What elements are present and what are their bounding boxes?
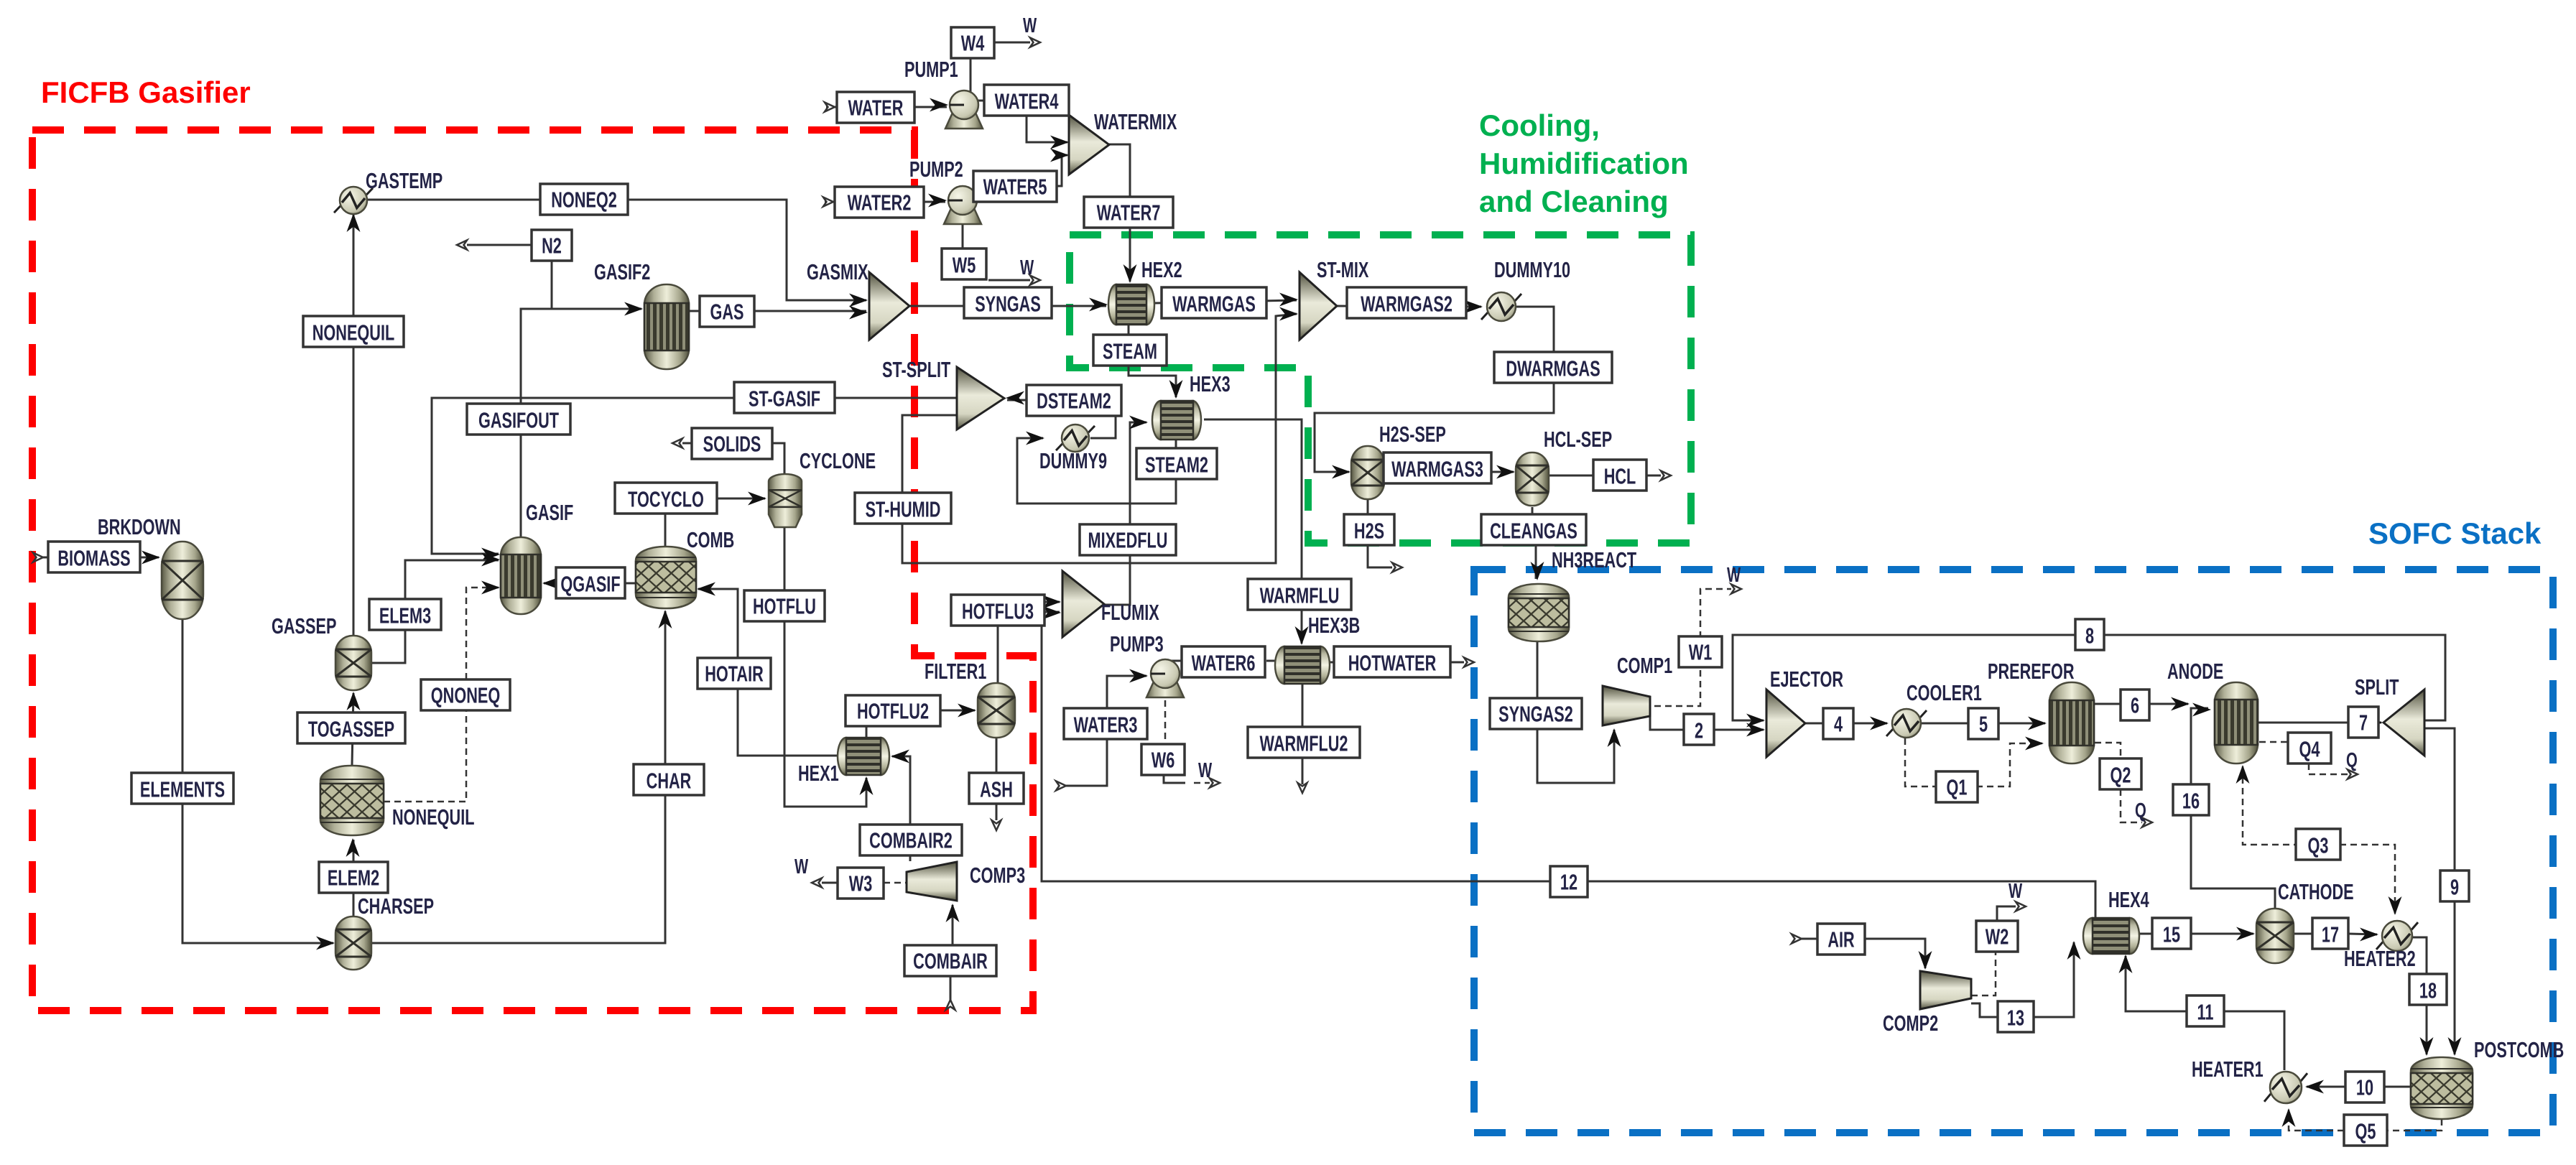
stream label WARMFLU2 — [1248, 727, 1360, 758]
cooler COOLER1 — [1886, 680, 1982, 738]
wire W4 to PUMP1 — [970, 55, 972, 92]
reactor COMB — [636, 527, 734, 608]
reactor NONEQUIL — [320, 766, 475, 835]
title Cooling Humidification and Cleaning — [1479, 108, 1689, 218]
svg-text:PREREFOR: PREREFOR — [1988, 659, 2075, 684]
svg-text:CATHODE: CATHODE — [2278, 879, 2354, 904]
reactor ANODE — [2167, 659, 2258, 763]
wire STEAM HEX2 to HEX3 — [1129, 325, 1183, 399]
stream label ST-HUMID — [855, 493, 951, 524]
svg-text:16: 16 — [2182, 789, 2200, 814]
stream label Q1 — [1936, 771, 1978, 802]
Cooling Humidification and Cleaning region border (green dashed) — [1070, 235, 1691, 543]
svg-text:GASTEMP: GASTEMP — [366, 168, 443, 193]
svg-text:HEX3B: HEX3B — [1308, 613, 1360, 638]
wire CHAR CHARSEP to COMB — [371, 610, 672, 943]
wire WARMFLU2 HEX3B export down — [1298, 684, 1307, 793]
stream label SYNGAS2 — [1490, 698, 1582, 729]
svg-text:WATER3: WATER3 — [1074, 713, 1138, 738]
svg-text:Q: Q — [2135, 799, 2146, 822]
svg-text:DUMMY9: DUMMY9 — [1039, 448, 1107, 473]
pump PUMP3 — [1110, 631, 1184, 697]
wire stream 17 CATHODE to HEATER2 — [2294, 928, 2378, 942]
stream label BIOMASS — [48, 542, 140, 572]
svg-text:STEAM2: STEAM2 — [1145, 452, 1208, 478]
svg-text:GASSEP: GASSEP — [272, 613, 336, 639]
svg-text:CHARSEP: CHARSEP — [358, 894, 434, 919]
wire N2 to GASIF2 — [552, 258, 641, 309]
svg-text:HOTFLU: HOTFLU — [753, 594, 816, 619]
stream label WATER6 — [1182, 646, 1265, 677]
svg-text:GAS: GAS — [710, 300, 743, 325]
stream label Q4 — [2288, 733, 2331, 763]
wire HEX3 out to WARMFLU HEX3B — [1204, 419, 1309, 645]
svg-text:W5: W5 — [953, 253, 976, 278]
svg-text:Q5: Q5 — [2355, 1119, 2376, 1144]
work/heat port label W — [1727, 564, 1741, 587]
wire stream 18 HEATER2 to POSTCOMB — [2410, 937, 2434, 1056]
wire W1 dashed COMP1 work — [1654, 585, 1741, 707]
stream label CHAR — [634, 764, 704, 795]
wire COMBAIR feed to COMP3 — [946, 904, 960, 1010]
wire Q1 dashed COOLER1 to PREREFOR — [1905, 737, 2044, 787]
stream label HOTFLU2 — [845, 695, 940, 726]
svg-text:WARMFLU2: WARMFLU2 — [1260, 731, 1348, 756]
svg-text:HEX4: HEX4 — [2108, 887, 2149, 912]
SOFC Stack region border (blue dashed) — [1474, 570, 2553, 1133]
stream label HOTFLU3 — [951, 595, 1044, 626]
work/heat port label Q — [2346, 749, 2358, 772]
svg-text:PUMP2: PUMP2 — [909, 157, 963, 182]
svg-text:18: 18 — [2419, 978, 2437, 1003]
wire PUMP2 to WATER5 — [976, 186, 981, 195]
stream label ELEM3 — [369, 599, 441, 630]
wire HOTFLU2 HEX1 to FILTER1 — [866, 704, 976, 738]
stream label TOGASSEP — [297, 713, 405, 743]
wire W2 dashed COMP2 work — [1971, 902, 2026, 996]
wire BIOMASS feed to BRKDOWN — [33, 551, 160, 565]
stream label ELEM2 — [319, 862, 388, 893]
wire stream 4 EJECTOR to COOLER1 — [1805, 717, 1889, 730]
svg-text:FLUMIX: FLUMIX — [1101, 600, 1159, 625]
stream label 8 — [2075, 619, 2104, 650]
stream label STEAM2 — [1136, 448, 1217, 479]
stream label 4 — [1823, 708, 1853, 739]
svg-text:HCL-SEP: HCL-SEP — [1544, 427, 1612, 452]
stream label W6 — [1141, 744, 1185, 775]
wire W6 work export W — [1164, 775, 1220, 788]
stream label WATER7 — [1084, 197, 1173, 228]
stream label W1 — [1679, 636, 1722, 667]
stream label NONEQUIL — [303, 316, 404, 347]
wire PUMP3 to WATER6 — [1169, 660, 1183, 662]
stream label 7 — [2348, 707, 2378, 738]
stream label N2 — [532, 230, 572, 261]
reactor PREREFOR — [1988, 659, 2094, 763]
heater HEATER2 — [2344, 921, 2418, 971]
wire MIXEDFLU FLUMIX to HEX3 — [1101, 416, 1148, 605]
svg-text:AIR: AIR — [1827, 927, 1854, 952]
wire H2S export — [1368, 499, 1402, 572]
svg-text:SYNGAS2: SYNGAS2 — [1498, 702, 1573, 727]
svg-text:PUMP3: PUMP3 — [1110, 631, 1164, 656]
stream label WATER2 — [835, 187, 924, 218]
separator CHARSEP — [335, 894, 434, 970]
svg-text:COMP2: COMP2 — [1883, 1011, 1938, 1036]
stream label WARMGAS2 — [1347, 287, 1466, 318]
reactor NH3REACT — [1509, 547, 1637, 641]
svg-text:Q: Q — [2346, 749, 2358, 772]
stream label DSTEAM2 — [1027, 385, 1121, 416]
stream label QNONEQ — [421, 679, 510, 710]
wire WATER4 to WATERMIX — [1027, 112, 1069, 149]
wire GASIFOUT GASIF to GASIF2 — [521, 302, 643, 539]
svg-text:HEX3: HEX3 — [1190, 371, 1231, 396]
svg-text:ASH: ASH — [980, 777, 1013, 802]
stream label 10 — [2345, 1072, 2384, 1103]
stream label W5 — [942, 249, 986, 279]
compressor COMP3 — [907, 862, 1025, 901]
wire NONEQUIL stream GASSEP to GASTEMP — [347, 213, 361, 636]
wire stream 8 SPLIT recycle to EJECTOR — [1733, 635, 2445, 728]
svg-text:NH3REACT: NH3REACT — [1552, 547, 1637, 572]
stream label WARMGAS — [1162, 287, 1266, 318]
wire stream 5 COOLER1 to PREREFOR — [1921, 717, 2047, 730]
svg-text:DUMMY10: DUMMY10 — [1494, 257, 1570, 282]
svg-text:BIOMASS: BIOMASS — [57, 546, 130, 571]
wire stream 12 HEX4 to FLUMIX — [1042, 595, 2095, 919]
wire DSTEAM2 to ST-SPLIT — [1006, 391, 1027, 405]
stream label 12 — [1550, 866, 1588, 897]
stream label 11 — [2187, 995, 2224, 1026]
title SOFC Stack — [2368, 516, 2542, 550]
heat exchanger HEX3 — [1152, 371, 1231, 440]
wire ELEM3 GASSEP to GASIF — [371, 553, 500, 664]
heat exchanger HEX1 — [798, 738, 889, 786]
wire HCL export — [1549, 471, 1671, 481]
wire WATERMIX to HEX2 via WATER7 — [1109, 144, 1137, 283]
compressor COMP2 — [1883, 971, 1971, 1036]
svg-text:QNONEQ: QNONEQ — [431, 683, 500, 708]
wire AIR feed to COMP2 — [1792, 934, 1932, 970]
svg-text:HOTFLU2: HOTFLU2 — [857, 699, 929, 724]
svg-text:GASIFOUT: GASIFOUT — [478, 408, 560, 433]
wire HOTAIR HEX1 to COMB — [697, 582, 838, 756]
svg-text:SOFC Stack: SOFC Stack — [2368, 516, 2542, 550]
stream label SYNGAS — [964, 287, 1052, 318]
stream label ST-GASIF — [734, 382, 835, 413]
svg-text:TOGASSEP: TOGASSEP — [308, 717, 394, 742]
wire WARMGAS3 H2S-SEP to HCL-SEP — [1384, 465, 1515, 479]
stream label WATER4 — [984, 85, 1069, 116]
wire TOCYCLO COMB to CYCLONE — [665, 492, 766, 548]
stream label NONEQ2 — [540, 184, 628, 215]
svg-text:4: 4 — [1834, 712, 1843, 737]
stream label W4 — [951, 27, 994, 58]
svg-text:W: W — [794, 855, 808, 878]
mixer ST-MIX — [1299, 257, 1368, 340]
stream label 2 — [1684, 714, 1714, 745]
wire PUMP3 to W6 — [1164, 700, 1167, 746]
svg-text:TOCYCLO: TOCYCLO — [628, 487, 704, 512]
wire stream 9 SPLIT to POSTCOMB — [2424, 728, 2462, 1056]
wire HOTFLU CYCLONE to HEX1 — [784, 527, 874, 807]
stream label AIR — [1817, 924, 1865, 955]
reactor CATHODE — [2256, 879, 2354, 963]
ejector EJECTOR — [1766, 667, 1843, 757]
reactor GASIF2 — [594, 259, 689, 369]
stream label Q3 — [2296, 829, 2340, 860]
svg-text:HOTFLU3: HOTFLU3 — [962, 599, 1034, 624]
wire COMBAIR2 COMP3 to HEX1 — [891, 750, 910, 862]
wire stream 7 ANODE to SPLIT — [2257, 716, 2383, 730]
stream label DWARMGAS — [1494, 352, 1612, 383]
wire CLEANGAS HCL-SEP to NH3REACT — [1531, 507, 1544, 580]
svg-text:Q2: Q2 — [2111, 763, 2131, 788]
svg-text:HEATER1: HEATER1 — [2192, 1057, 2264, 1082]
svg-text:SPLIT: SPLIT — [2355, 674, 2399, 700]
work/heat port label W — [1198, 759, 1212, 782]
stream label HCL — [1593, 460, 1646, 491]
svg-text:W: W — [1727, 564, 1741, 587]
stream label ASH — [969, 773, 1024, 804]
stream label HOTAIR — [698, 658, 771, 689]
svg-text:SYNGAS: SYNGAS — [975, 292, 1041, 317]
wire ASH FILTER1 export — [992, 738, 1001, 830]
svg-text:COOLER1: COOLER1 — [1906, 680, 1982, 705]
stream label 13 — [1998, 1001, 2034, 1032]
wire WATER5 to WATERMIX — [1050, 149, 1069, 187]
title FICFB Gasifier — [41, 75, 251, 109]
svg-text:WATER: WATER — [848, 96, 904, 121]
svg-text:GASMIX: GASMIX — [807, 259, 868, 284]
compressor COMP1 — [1603, 653, 1672, 725]
svg-text:HEATER2: HEATER2 — [2344, 946, 2416, 971]
heat exchanger HEX3B — [1275, 613, 1360, 684]
svg-text:NONEQUIL: NONEQUIL — [312, 320, 395, 345]
wire SYNGAS2 NH3REACT to COMP1 — [1537, 641, 1621, 783]
svg-text:HCL: HCL — [1604, 464, 1636, 489]
svg-text:WATER2: WATER2 — [848, 190, 912, 215]
svg-text:GASIF: GASIF — [526, 500, 573, 525]
heater DUMMY10 — [1481, 257, 1570, 321]
svg-text:NONEQUIL: NONEQUIL — [392, 804, 475, 830]
svg-text:Cooling,: Cooling, — [1479, 108, 1600, 142]
svg-text:WATER4: WATER4 — [995, 89, 1059, 114]
stream label GASIFOUT — [467, 404, 570, 435]
svg-text:ELEMENTS: ELEMENTS — [140, 777, 225, 802]
svg-text:W4: W4 — [961, 31, 985, 56]
work/heat port label W — [794, 855, 808, 878]
svg-text:HEX1: HEX1 — [798, 761, 839, 786]
svg-text:WARMFLU: WARMFLU — [1260, 583, 1340, 608]
stream label MIXEDFLU — [1080, 524, 1176, 555]
stream label QGASIF — [556, 567, 625, 598]
svg-text:W6: W6 — [1152, 748, 1175, 773]
svg-text:WARMGAS3: WARMGAS3 — [1391, 457, 1483, 482]
svg-text:DSTEAM2: DSTEAM2 — [1037, 389, 1111, 414]
svg-text:NONEQ2: NONEQ2 — [551, 187, 617, 213]
reactor BRKDOWN — [98, 514, 203, 619]
svg-text:W3: W3 — [849, 871, 873, 896]
svg-text:W: W — [1020, 256, 1034, 279]
wire Q4 dashed ANODE export — [2259, 742, 2358, 779]
svg-text:11: 11 — [2197, 1000, 2214, 1025]
wire Q3 dashed HEATER2 to ANODE — [2236, 765, 2402, 915]
svg-text:ST-GASIF: ST-GASIF — [749, 386, 820, 412]
wire stream 16 CATHODE to ANODE — [2191, 703, 2275, 910]
wire stream 11 HEATER1 to HEX4 — [2119, 955, 2285, 1070]
stream label GAS — [700, 296, 754, 327]
wire WARMGAS2 ST-MIX to DUMMY10 — [1337, 300, 1483, 314]
stream label HOTFLU — [744, 590, 825, 621]
stream label 18 — [2409, 974, 2447, 1005]
stream label 9 — [2440, 871, 2469, 901]
wire stream 12 start horizontal crossing — [0, 0, 1, 1]
separator HCL-SEP — [1516, 427, 1612, 506]
svg-text:6: 6 — [2131, 693, 2139, 718]
svg-text:COMBAIR: COMBAIR — [913, 949, 988, 974]
svg-text:CLEANGAS: CLEANGAS — [1490, 519, 1577, 544]
svg-text:13: 13 — [2007, 1006, 2024, 1031]
wire W3 work export — [812, 878, 907, 888]
stream label ELEMENTS — [131, 773, 233, 804]
pump PUMP2 — [909, 157, 981, 224]
svg-text:17: 17 — [2322, 922, 2339, 947]
stream label 5 — [1968, 708, 1998, 739]
heat exchanger HEX4 — [2083, 887, 2149, 954]
heater HEATER1 — [2192, 1057, 2307, 1103]
svg-text:W: W — [1023, 14, 1037, 37]
svg-text:WATER5: WATER5 — [983, 175, 1047, 200]
svg-text:GASIF2: GASIF2 — [594, 259, 650, 284]
wire ST-GASIF ST-SPLIT to GASIF — [432, 398, 957, 562]
wire W4 work export W — [994, 38, 1040, 47]
svg-text:W1: W1 — [1689, 640, 1713, 665]
stream label WATER5 — [973, 171, 1057, 202]
stream label STEAM — [1093, 335, 1167, 366]
svg-text:ANODE: ANODE — [2167, 659, 2223, 684]
wire NONEQ2 GASTEMP to GASMIX — [366, 200, 868, 307]
wire stream 10 POSTCOMB to HEATER1 — [2305, 1080, 2411, 1094]
stream label Q2 — [2100, 758, 2141, 789]
reactor POSTCOMB — [2411, 1037, 2564, 1119]
wire PUMP1 to WATER4 — [977, 100, 984, 102]
separator GASSEP — [272, 613, 371, 690]
wire ST-HUMID ST-SPLIT to ST-MIX — [902, 307, 1298, 564]
svg-text:and Cleaning: and Cleaning — [1479, 185, 1669, 218]
filter FILTER1 — [925, 659, 1015, 738]
stream label Q5 — [2344, 1115, 2387, 1146]
svg-text:7: 7 — [2359, 710, 2368, 735]
svg-text:COMB: COMB — [687, 527, 734, 552]
svg-text:WATER6: WATER6 — [1192, 651, 1256, 676]
svg-text:EJECTOR: EJECTOR — [1770, 667, 1843, 692]
wire WATER6 to HEX3B — [1266, 660, 1277, 662]
work/heat port label W — [1020, 256, 1034, 279]
wire DWARMGAS DUMMY10 to H2S-SEP — [1315, 307, 1554, 479]
svg-text:MIXEDFLU: MIXEDFLU — [1088, 528, 1168, 553]
heat exchanger HEX2 — [1108, 257, 1182, 325]
svg-text:SOLIDS: SOLIDS — [703, 432, 761, 457]
wire ELEMENTS BRKDOWN to CHARSEP — [182, 619, 335, 950]
stream label 6 — [2121, 690, 2149, 720]
svg-text:CYCLONE: CYCLONE — [800, 448, 876, 473]
svg-text:8: 8 — [2085, 623, 2094, 649]
stream label WATER — [837, 92, 914, 123]
stream label COMBAIR — [904, 945, 996, 976]
wire SYNGAS GASMIX to HEX2 — [909, 298, 1108, 312]
splitter ST-SPLIT — [882, 357, 1004, 430]
separator H2S-SEP — [1351, 422, 1446, 499]
wire WATER3 feed to PUMP3 — [1056, 669, 1148, 791]
wire WARMGAS HEX2 to ST-MIX — [1154, 293, 1298, 307]
svg-text:FICFB Gasifier: FICFB Gasifier — [41, 75, 251, 109]
pump PUMP1 — [904, 57, 983, 129]
stream label WARMGAS3 — [1384, 452, 1491, 483]
wire stream 2 COMP1 to EJECTOR — [1650, 716, 1765, 737]
wire QGASIF COMB to GASIF — [542, 577, 636, 590]
wire SOLIDS export from CYCLONE — [672, 439, 784, 475]
heater GASTEMP — [334, 168, 443, 214]
reactor GASIF — [501, 500, 573, 614]
svg-text:Q3: Q3 — [2308, 833, 2329, 858]
svg-text:Q1: Q1 — [1947, 775, 1968, 800]
stream label COMBAIR2 — [860, 825, 962, 855]
work/heat port label W — [2009, 880, 2022, 903]
stream label W3 — [838, 868, 884, 899]
stream label TOCYCLO — [615, 483, 717, 514]
cyclone CYCLONE — [769, 448, 876, 527]
svg-text:15: 15 — [2163, 922, 2180, 947]
svg-text:ELEM3: ELEM3 — [379, 603, 431, 628]
svg-text:2: 2 — [1695, 718, 1703, 743]
svg-text:W: W — [2009, 880, 2022, 903]
wire WATER feed to PUMP1 — [825, 98, 948, 112]
svg-text:WARMGAS2: WARMGAS2 — [1361, 292, 1453, 317]
wire PUMP2 to W5 — [962, 220, 964, 252]
stream label 17 — [2312, 918, 2348, 949]
work/heat port label Q — [2135, 799, 2146, 822]
wire Q2 dashed PREREFOR export — [2095, 743, 2152, 827]
svg-text:ST-SPLIT: ST-SPLIT — [882, 357, 951, 382]
splitter SPLIT — [2355, 674, 2424, 756]
svg-text:H2S: H2S — [1354, 519, 1384, 544]
svg-text:ST-HUMID: ST-HUMID — [866, 497, 941, 522]
svg-text:DWARMGAS: DWARMGAS — [1506, 356, 1600, 381]
stream label WARMFLU — [1248, 579, 1351, 610]
wire QNONEQ dashed NONEQUIL to GASIF — [384, 581, 500, 802]
stream label W2 — [1976, 921, 2018, 952]
mixer GASMIX — [807, 259, 909, 340]
svg-text:5: 5 — [1979, 712, 1988, 737]
svg-text:COMP3: COMP3 — [970, 863, 1025, 888]
wire N2 purge export — [457, 241, 532, 250]
mixer WATERMIX — [1069, 109, 1177, 175]
svg-text:HEX2: HEX2 — [1141, 257, 1182, 282]
stream label WATER3 — [1064, 708, 1147, 739]
wire Q5 dashed POSTCOMB to HEATER1 — [2282, 1108, 2442, 1131]
svg-text:HOTAIR: HOTAIR — [705, 662, 764, 687]
heater DUMMY9 — [1039, 424, 1107, 473]
svg-text:Q4: Q4 — [2299, 737, 2320, 762]
svg-text:WARMGAS: WARMGAS — [1172, 292, 1256, 317]
svg-text:STEAM: STEAM — [1103, 339, 1157, 364]
svg-text:N2: N2 — [542, 233, 562, 259]
wire stream 15 HEX4 to CATHODE — [2139, 927, 2255, 941]
svg-text:12: 12 — [1560, 870, 1577, 895]
svg-text:ELEM2: ELEM2 — [328, 865, 379, 891]
